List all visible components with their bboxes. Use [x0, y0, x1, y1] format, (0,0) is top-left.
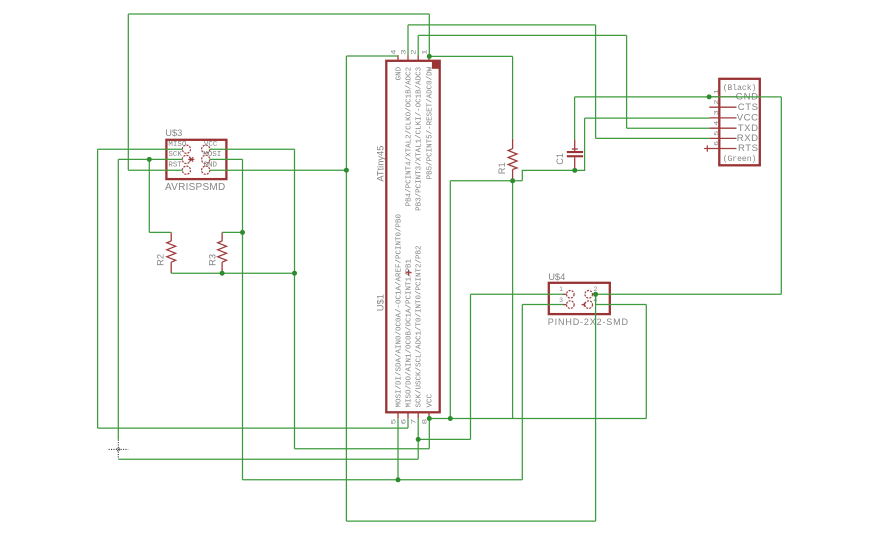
wire RESET net top horizontal	[128, 13, 429, 15]
svg-text:VCC: VCC	[204, 141, 218, 149]
svg-text:RST: RST	[168, 162, 182, 170]
wire U$3 MOSI row	[210, 158, 243, 160]
wire R2 drop vertical	[148, 159, 150, 232]
svg-text:GND: GND	[395, 66, 403, 80]
svg-text:MISO: MISO	[168, 141, 187, 149]
FTDI pin stubs	[709, 97, 736, 149]
IC pin numbers top	[390, 49, 428, 55]
wire R3 top	[222, 231, 242, 233]
svg-text:RTS: RTS	[738, 143, 759, 154]
wire U$4 pin4 row right	[596, 304, 647, 306]
svg-text:MOSI/DI/SDA/AIN0/OC0A/-OC1A/AR: MOSI/DI/SDA/AIN0/OC0A/-OC1A/AREF/PCINT0/…	[395, 213, 403, 407]
junction R3 top	[240, 230, 245, 235]
svg-text:SCK: SCK	[168, 151, 182, 159]
wire pin2 stub up	[417, 35, 419, 55]
wire TXD vertical	[626, 35, 628, 128]
svg-text:6: 6	[713, 141, 720, 146]
wire U$3 MISO row	[98, 148, 183, 150]
junction pin8	[427, 416, 432, 421]
wire MOSI vertical	[242, 159, 244, 479]
svg-text:(Green): (Green)	[723, 155, 757, 164]
svg-text:2: 2	[410, 49, 417, 55]
svg-text:1: 1	[421, 49, 428, 55]
junction R3 bottom	[220, 271, 225, 276]
wire GND bottom horizontal	[346, 520, 595, 522]
origin cross dotted	[109, 440, 129, 459]
wire step up to C1	[522, 170, 575, 180]
wire GND main vertical	[345, 56, 347, 521]
wire right loop vertical	[645, 305, 647, 419]
wire R2 R3 bottom horizontal	[171, 272, 294, 274]
wire pin5 vertical	[397, 418, 399, 479]
IC pin numbers bottom	[390, 418, 428, 424]
junction pin1	[427, 54, 432, 59]
svg-text:SCK/USCK/SCL/ADC1/T0/INT0/PCIN: SCK/USCK/SCL/ADC1/T0/INT0/PCINT2/PB2	[416, 245, 424, 407]
wire RST row to U$3	[128, 169, 182, 171]
svg-text:3: 3	[713, 110, 720, 115]
wire pin7 to U$4 pin1 horizontal	[418, 438, 470, 440]
junction VCC R2R3	[292, 271, 297, 276]
junction pin7	[416, 437, 421, 442]
svg-text:ATtiny45: ATtiny45	[376, 146, 386, 182]
U$4 pin numbers	[559, 286, 597, 304]
wire right GND vertical	[780, 97, 782, 294]
svg-text:1: 1	[559, 286, 563, 293]
wire U$3 GND row	[210, 169, 347, 171]
wire pin3 stub up	[407, 25, 409, 55]
op IC U$1 ATtiny45 box	[386, 61, 439, 413]
capacitor C1	[567, 139, 583, 170]
wire RESET down to pin 1	[428, 14, 430, 56]
wire U$4 pin3 vertical	[521, 305, 523, 480]
wire C1 to VCC riser	[575, 118, 585, 170]
svg-text:U$4: U$4	[548, 272, 565, 282]
wire pin1 to R1 top horizontal	[429, 55, 512, 57]
junction U$4 pin2	[593, 292, 598, 297]
IC corner square	[432, 61, 440, 69]
IC pin stubs bottom	[398, 412, 429, 418]
wire R1 bottom to VCC drop	[449, 181, 451, 419]
wire VCC vertical	[294, 149, 296, 449]
resistor R2	[167, 232, 176, 273]
wire R1 top vertical	[512, 56, 514, 138]
svg-text:U$3: U$3	[165, 128, 182, 138]
junction VCC drop	[448, 416, 453, 421]
wire R1 bottom horizontal	[450, 180, 522, 182]
wire U$3 SCK row	[118, 158, 182, 160]
wire pin8 down vertical	[428, 419, 430, 449]
U$4 pin stubs	[563, 294, 596, 306]
svg-text:MISO/DO/AIN1/OC0B/OC1A/PCINT1/: MISO/DO/AIN1/OC0B/OC1A/PCINT1/PB1	[405, 258, 413, 407]
wire U$3 VCC row	[210, 148, 295, 150]
wire pin7 vertical	[417, 418, 419, 459]
FTDI pin numbers	[713, 89, 720, 145]
wire pin3 to RXD horizontal	[408, 24, 596, 26]
svg-text:4: 4	[713, 121, 720, 126]
svg-text:U$1: U$1	[376, 294, 386, 311]
wire SCK vertical	[117, 159, 119, 439]
wire MISO vertical	[97, 149, 99, 428]
wire R1 bottom down vertical	[512, 181, 514, 418]
wire GND row FTDI	[575, 96, 782, 98]
svg-text:7: 7	[410, 418, 417, 424]
U$3 pads	[182, 145, 210, 174]
svg-text:PB5/PCINT5/-RESET/ADC0/DW: PB5/PCINT5/-RESET/ADC0/DW	[426, 66, 434, 179]
svg-text:(Black): (Black)	[723, 84, 757, 93]
svg-text:3: 3	[400, 49, 407, 55]
svg-text:CTS: CTS	[738, 102, 759, 113]
IC origin cross	[406, 270, 412, 276]
wire RXD vertical	[595, 25, 597, 138]
connector U$4 box	[549, 283, 610, 314]
svg-text:R1: R1	[497, 162, 507, 174]
wire TXD row	[627, 127, 710, 129]
svg-text:PB3/PCINT3/XTAL1/CLKI/-OC1B/AD: PB3/PCINT3/XTAL1/CLKI/-OC1B/ADC3	[416, 66, 424, 211]
svg-text:PINHD-2X2-SMD: PINHD-2X2-SMD	[548, 317, 629, 327]
resistor R3	[218, 232, 227, 273]
junction U$3 GND	[344, 168, 349, 173]
wire pin8 right horizontal	[429, 418, 646, 420]
svg-text:4: 4	[390, 49, 397, 55]
svg-text:VCC: VCC	[426, 393, 434, 407]
wire VCC bottom horizontal	[295, 448, 430, 450]
junction SCK R2	[147, 157, 152, 162]
junction FTDI GND	[707, 94, 712, 99]
svg-text:3: 3	[559, 297, 563, 304]
U$3 origin asterisk	[188, 157, 194, 161]
wire SCK bottom horizontal	[118, 458, 418, 460]
FTDI labels	[736, 92, 759, 155]
junction pin5	[396, 477, 401, 482]
IC pin stubs top	[398, 55, 429, 61]
svg-text:5: 5	[713, 131, 720, 136]
junction R1 bottom	[510, 178, 515, 183]
wire U$4 pin2 to right vertical	[596, 293, 782, 295]
wire R2 top horizontal	[149, 231, 171, 233]
wire pin6 vertical	[407, 418, 409, 428]
svg-text:1: 1	[713, 89, 720, 94]
wire U$4 pin3 row	[522, 304, 563, 306]
resistor R1	[508, 139, 517, 181]
svg-text:C1: C1	[555, 153, 565, 165]
wire C1 top vertical	[574, 97, 576, 139]
wire RESET net left vertical	[127, 14, 129, 170]
svg-text:PB4/PCINT4/XTAL2/CLKO/OC1B/ADC: PB4/PCINT4/XTAL2/CLKO/OC1B/ADC2	[405, 67, 413, 207]
svg-text:GND: GND	[204, 162, 218, 170]
wire VCC row FTDI	[585, 117, 710, 119]
wire RXD row	[596, 137, 710, 139]
connector FTDI box	[719, 79, 760, 166]
wire MISO bottom horizontal	[98, 427, 408, 429]
connector U$3 box	[166, 140, 226, 179]
wire MOSI bottom horizontal	[243, 479, 523, 481]
wire pin2 to TXD horizontal	[418, 34, 626, 36]
svg-text:5: 5	[390, 418, 397, 424]
svg-text:R2: R2	[156, 254, 166, 266]
wire GND U$4 vertical	[595, 294, 597, 521]
wire U$4 pin1 row	[471, 293, 564, 295]
FTDI plus mark	[704, 145, 710, 151]
wire GND pin4 horizontal	[346, 55, 398, 57]
svg-text:2: 2	[713, 100, 720, 105]
svg-text:6: 6	[400, 418, 407, 424]
svg-text:R3: R3	[208, 254, 218, 266]
junction C1 bottom	[572, 168, 577, 173]
U$3 pin labels	[168, 141, 221, 170]
wire U$4 pin1 vertical	[470, 294, 472, 439]
svg-text:AVRISPSMD: AVRISPSMD	[165, 182, 225, 193]
svg-text:MOSI: MOSI	[203, 151, 221, 159]
U$4 pads	[567, 291, 593, 309]
